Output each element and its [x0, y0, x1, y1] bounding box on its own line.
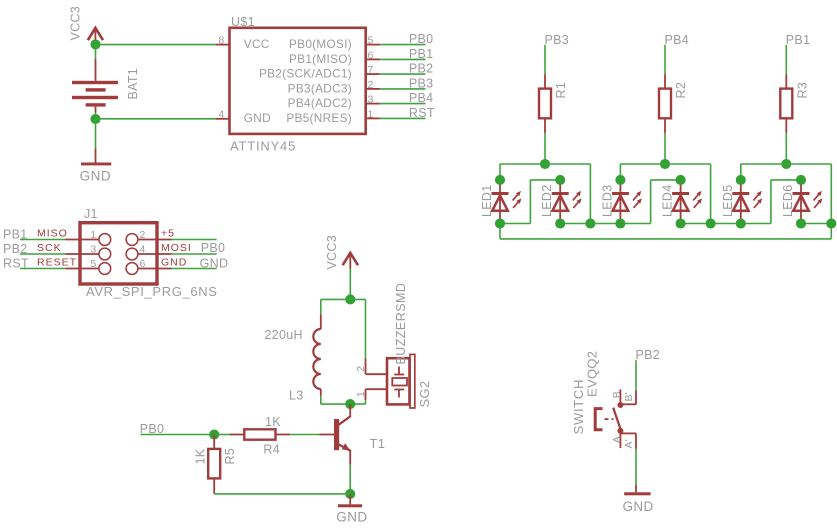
LED LED3 [612, 180, 642, 224]
label R5 [223, 448, 237, 465]
pin number 1 (SG2) [355, 391, 367, 397]
pin number 3 [368, 94, 374, 106]
node: VCC3 / BAT1 + junction [90, 39, 100, 49]
pin label A [611, 436, 623, 443]
svg-text:3: 3 [90, 243, 96, 255]
wire R2 to LED rail [664, 133, 666, 164]
svg-text:A: A [611, 436, 623, 443]
svg-text:2: 2 [355, 366, 367, 372]
node R2 rail junction [660, 159, 670, 169]
svg-text:PB3(ADC3): PB3(ADC3) [288, 81, 352, 95]
svg-text:SCK: SCK [37, 242, 62, 254]
net label PB1 [409, 47, 434, 61]
label AVR_SPI_PRG_6NS [86, 284, 218, 299]
svg-text:1K: 1K [265, 415, 281, 429]
buzzer SG2 piezo element [392, 367, 407, 398]
J1 pad circle pin 1 [99, 234, 111, 246]
svg-text:B: B [611, 391, 623, 398]
node rail junction R2 right [706, 218, 716, 228]
svg-text:PB1: PB1 [786, 33, 811, 47]
svg-text:PB1: PB1 [409, 47, 434, 61]
svg-text:R2: R2 [674, 82, 688, 99]
svg-text:LED3: LED3 [600, 185, 614, 217]
net label PB4 [409, 91, 434, 105]
svg-text:LED2: LED2 [540, 185, 554, 217]
wire LED6 bottom segment [801, 223, 831, 225]
switch actuator [595, 409, 613, 430]
svg-text:VCC3: VCC3 [69, 6, 83, 41]
pin name PB0(MOSI) [289, 37, 352, 51]
svg-text:6: 6 [368, 49, 374, 61]
wire net PB4 down to R2 [664, 45, 666, 75]
wire from J1 pin 6 [172, 268, 217, 270]
pin number 1 [368, 108, 374, 120]
LED LED4 [672, 180, 702, 224]
net label PB2 [3, 242, 28, 256]
svg-text:MOSI: MOSI [161, 242, 192, 254]
ground symbol GND (T1) [336, 494, 367, 524]
svg-text:GND: GND [623, 499, 654, 514]
svg-text:RST: RST [409, 106, 435, 120]
pin lead buzzer pin 1 [366, 389, 388, 404]
svg-text:5: 5 [90, 258, 96, 270]
label R4 [263, 443, 280, 457]
wire net PB4 [380, 103, 426, 105]
pin number 7 [368, 64, 374, 76]
label EVQQ2 [585, 351, 600, 397]
svg-text:VCC: VCC [244, 37, 270, 51]
wire VCC3 to loop [349, 269, 351, 300]
node LED2 cathode [555, 218, 565, 228]
svg-text:GND: GND [80, 168, 112, 183]
node T1 collector junction [345, 399, 355, 409]
pin name PB1(MISO) [289, 52, 352, 66]
pin name MISO [37, 227, 68, 239]
pin name PB4(ADC2) [288, 96, 352, 110]
svg-text:+5: +5 [161, 227, 175, 239]
svg-text:1: 1 [368, 108, 374, 120]
LED LED2 [552, 180, 582, 224]
wire net PB1 [380, 58, 426, 60]
wire net PB2 to J1 [20, 253, 66, 255]
svg-text:AVR_SPI_PRG_6NS: AVR_SPI_PRG_6NS [86, 284, 218, 299]
wire from J1 pin 4 [172, 253, 217, 255]
label 1K (R5 value) [194, 448, 208, 464]
pin lead U$1 pin 5 [366, 44, 380, 46]
power flag VCC3 (battery) [69, 6, 104, 44]
node R1 rail junction [540, 159, 550, 169]
wire LED6 top link [771, 180, 801, 224]
node rail junction R3 right [826, 218, 836, 228]
svg-text:RESET: RESET [37, 256, 77, 268]
buzzer SG2 body [387, 354, 415, 408]
LED LED6 [793, 180, 823, 224]
node LED2 anode [555, 175, 565, 185]
svg-text:A': A' [623, 439, 635, 449]
net label RST [409, 106, 435, 120]
net label PB2 (switch) [636, 348, 661, 362]
svg-text:PB2(SCK/ADC1): PB2(SCK/ADC1) [259, 67, 352, 81]
pin name GND [161, 256, 187, 268]
wire VCC3 net: junction to U$1 pin 8 [96, 44, 216, 46]
pin number 5 [90, 258, 96, 270]
LED LED1 [492, 180, 522, 224]
wire from J1 pin 2 [172, 239, 217, 241]
node rail junction R1 right [585, 218, 595, 228]
net label RST [3, 257, 29, 271]
net label PB0 (J1) [201, 241, 226, 255]
pin label A' [623, 439, 635, 449]
wire bottom segment LED2-LED3-LED4 link [560, 223, 650, 225]
resistor R3 [780, 75, 792, 133]
pin name SCK [37, 242, 62, 254]
wire loop top [321, 298, 366, 300]
svg-text:ATTINY45: ATTINY45 [230, 138, 296, 153]
label SG2 [417, 381, 432, 408]
pin name PB2(SCK/ADC1) [259, 67, 352, 81]
pin name +5 [161, 227, 175, 239]
pin name MOSI [161, 242, 192, 254]
svg-text:LED6: LED6 [781, 185, 795, 217]
wire GND net: junction to U$1 pin 4 [96, 118, 216, 120]
pin number 2 (SG2) [355, 366, 367, 372]
svg-text:LED1: LED1 [480, 185, 494, 217]
net label PB3 [545, 33, 570, 47]
svg-text:5: 5 [368, 35, 374, 47]
label T1 [370, 436, 386, 451]
pin name PB5(NRES) [286, 111, 352, 125]
net label PB4 [665, 33, 690, 47]
wire net RST to J1 [20, 268, 66, 270]
label L3 [289, 389, 304, 403]
label LED2 [540, 185, 554, 217]
svg-text:SG2: SG2 [417, 381, 432, 408]
pin number 6 [140, 258, 146, 270]
svg-text:220uH: 220uH [265, 328, 303, 342]
wire LED2 top link [530, 180, 560, 224]
wire long return net (bottom) [500, 224, 831, 239]
pin lead U$1 pin 6 [366, 58, 380, 60]
inductor L3 [313, 314, 320, 395]
svg-text:EVQQ2: EVQQ2 [585, 351, 600, 397]
wire rail net R1 (horizontal) [500, 164, 590, 224]
wire LED4 top link [651, 180, 681, 224]
svg-text:8: 8 [218, 35, 224, 47]
svg-text:1: 1 [90, 229, 96, 241]
wire LED1 bottom segment [500, 223, 530, 225]
J1 pad circle pin 6 [126, 263, 138, 275]
svg-text:PB0: PB0 [409, 32, 434, 46]
net label PB0 [409, 32, 434, 46]
label LED3 [600, 185, 614, 217]
label ATTINY45 [230, 138, 296, 153]
svg-text:BUZZERSMD: BUZZERSMD [394, 283, 408, 365]
wire net RST [380, 117, 426, 119]
svg-text:LED5: LED5 [721, 185, 735, 217]
net label PB0 (base drive) [140, 422, 165, 436]
pin lead J1 pin 5 (RESET) [66, 268, 99, 270]
node: BAT1 - junction [90, 114, 100, 124]
wire bottom segment LED4-LED5-LED6 link [681, 223, 771, 225]
switch S EVQQ2 [613, 389, 636, 449]
node VCC3 loop junction [345, 294, 355, 304]
svg-text:J1: J1 [84, 207, 98, 221]
svg-text:2: 2 [140, 229, 146, 241]
net label PB2 [409, 62, 434, 76]
svg-text:R4: R4 [263, 443, 280, 457]
J1 pad circle pin 2 [126, 234, 138, 246]
label 1K (R4 value) [265, 415, 281, 429]
LED LED5 [732, 180, 762, 224]
svg-text:MISO: MISO [37, 227, 68, 239]
svg-text:T1: T1 [370, 436, 386, 451]
svg-text:4: 4 [140, 243, 146, 255]
node R3 rail junction [781, 159, 791, 169]
pin lead U$1 pin 4 [216, 118, 230, 120]
label R3 [795, 82, 809, 99]
resistor R4 [230, 429, 290, 439]
connector J1 body [80, 223, 157, 284]
svg-text:3: 3 [368, 94, 374, 106]
wire net PB3 [380, 88, 426, 90]
node LED1 cathode [495, 218, 505, 228]
label R2 [674, 82, 688, 99]
label LED6 [781, 185, 795, 217]
wire rail net R2 (horizontal) [620, 164, 710, 224]
svg-text:R1: R1 [554, 82, 568, 99]
wire net PB1 to J1 [20, 239, 66, 241]
svg-text:6: 6 [140, 258, 146, 270]
node LED4 anode [676, 175, 686, 185]
net label PB1 [786, 33, 811, 47]
wire rail net R3 (horizontal) [741, 164, 832, 224]
wire switch to GND [635, 449, 637, 492]
svg-text:LED4: LED4 [661, 185, 675, 217]
label U$1 [231, 15, 255, 29]
wire R1 to LED rail [544, 133, 546, 164]
svg-text:PB4: PB4 [665, 33, 690, 47]
label BAT1 [126, 68, 140, 100]
svg-text:2: 2 [368, 79, 374, 91]
pin lead J1 pin 2 (+5) [138, 239, 171, 241]
label BUZZERSMD [394, 283, 408, 365]
pin lead J1 pin 3 (SCK) [66, 253, 99, 255]
pin name RESET [37, 256, 77, 268]
node LED3 cathode [615, 218, 625, 228]
label SWITCH [571, 379, 586, 434]
op IC U$1 ATTINY45 body [230, 28, 366, 134]
pin number 4 (U$1 GND) [218, 108, 224, 120]
svg-text:PB3: PB3 [409, 76, 434, 90]
node emitter/GND junction [345, 489, 355, 499]
svg-text:GND: GND [244, 111, 271, 125]
pin name VCC [244, 37, 270, 51]
pin lead U$1 pin 1 [366, 117, 380, 119]
svg-text:PB1(MISO): PB1(MISO) [289, 52, 352, 66]
ground symbol GND (battery) [80, 163, 112, 184]
pin lead U$1 pin 3 [366, 103, 380, 105]
svg-text:R5: R5 [223, 448, 237, 465]
wire net PB3 down to R1 [544, 45, 546, 75]
pin number 2 [140, 229, 146, 241]
resistor R1 [539, 75, 551, 133]
J1 pad circle pin 4 [126, 248, 138, 260]
pin number 2 [368, 79, 374, 91]
wire loop left (to L3) [320, 299, 322, 314]
J1 pad circle pin 5 [99, 263, 111, 275]
svg-text:GND: GND [200, 257, 229, 271]
net label GND (J1) [200, 257, 229, 271]
pin number 3 [90, 243, 96, 255]
node LED1 anode [495, 175, 505, 185]
wire net PB0 to R4/R5 [141, 434, 215, 436]
resistor R5 [208, 435, 220, 494]
label J1 [84, 207, 98, 221]
ground symbol GND (switch) [623, 492, 654, 514]
pin number 8 (U$1 VCC) [218, 35, 224, 47]
wire L3 bottom to loop corner [321, 396, 366, 405]
svg-text:GND: GND [336, 509, 367, 524]
svg-text:PB5(NRES): PB5(NRES) [286, 111, 352, 125]
wire net PB2 to switch [635, 360, 637, 390]
pin lead U$1 pin 2 [366, 88, 380, 90]
wire R5 bottom to GND rail [214, 493, 350, 495]
power flag VCC3 (buzzer) [325, 235, 358, 270]
pin number 6 [368, 49, 374, 61]
svg-text:R3: R3 [795, 82, 809, 99]
pin number 1 [90, 229, 96, 241]
label LED1 [480, 185, 494, 217]
svg-text:PB2: PB2 [409, 62, 434, 76]
pin name PB3(ADC3) [288, 81, 352, 95]
battery BAT1 [72, 44, 118, 119]
svg-text:PB4: PB4 [409, 91, 434, 105]
transistor T1 [320, 404, 351, 464]
resistor R2 [659, 75, 671, 133]
svg-text:PB4(ADC2): PB4(ADC2) [288, 96, 352, 110]
svg-text:U$1: U$1 [231, 15, 255, 29]
pin name GND [244, 111, 271, 125]
label LED5 [721, 185, 735, 217]
wire T1 emitter to GND rail [349, 465, 351, 494]
svg-text:BAT1: BAT1 [126, 68, 140, 100]
svg-text:4: 4 [218, 108, 224, 120]
svg-text:L3: L3 [289, 389, 304, 403]
pin lead J1 pin 4 (MOSI) [138, 253, 171, 255]
pin label B' [623, 392, 635, 402]
wire net PB1 down to R3 [785, 45, 787, 75]
label LED4 [661, 185, 675, 217]
wire GND net: battery to ground symbol [95, 119, 97, 163]
node LED6 cathode [796, 218, 806, 228]
svg-text:1K: 1K [194, 448, 208, 464]
wire R4 to T1 base [290, 434, 319, 436]
node LED4 cathode [676, 218, 686, 228]
node LED5 cathode [736, 218, 746, 228]
pin number 4 [140, 243, 146, 255]
svg-text:B': B' [623, 392, 635, 402]
node R4/R5 junction [209, 429, 219, 439]
pin lead buzzer pin 2 [366, 358, 388, 374]
wire R3 to LED rail [785, 133, 787, 164]
pin lead U$1 pin 7 [366, 73, 380, 75]
J1 pad circle pin 3 [99, 248, 111, 260]
wire loop right (to buzzer pin 2) [365, 299, 367, 358]
svg-text:PB0(MOSI): PB0(MOSI) [289, 37, 352, 51]
svg-text:7: 7 [368, 64, 374, 76]
wire junction to R4 [214, 434, 230, 436]
net label PB3 [409, 76, 434, 90]
pin lead J1 pin 1 (MISO) [66, 239, 99, 241]
svg-text:1: 1 [355, 391, 367, 397]
label R1 [554, 82, 568, 99]
svg-text:PB2: PB2 [636, 348, 661, 362]
label 220uH [265, 328, 303, 342]
wire net PB0 [380, 44, 426, 46]
wire net PB2 [380, 73, 426, 75]
node LED3 anode [615, 175, 625, 185]
pin number 5 [368, 35, 374, 47]
node LED5 anode [736, 175, 746, 185]
pin label B [611, 391, 623, 398]
pin lead J1 pin 6 (GND) [138, 268, 171, 270]
svg-text:PB0: PB0 [201, 241, 226, 255]
svg-text:VCC3: VCC3 [325, 235, 339, 270]
node LED6 anode [796, 175, 806, 185]
net label PB1 [3, 228, 28, 242]
svg-text:GND: GND [161, 256, 187, 268]
svg-text:PB3: PB3 [545, 33, 570, 47]
pin lead U$1 pin 8 [216, 44, 230, 46]
